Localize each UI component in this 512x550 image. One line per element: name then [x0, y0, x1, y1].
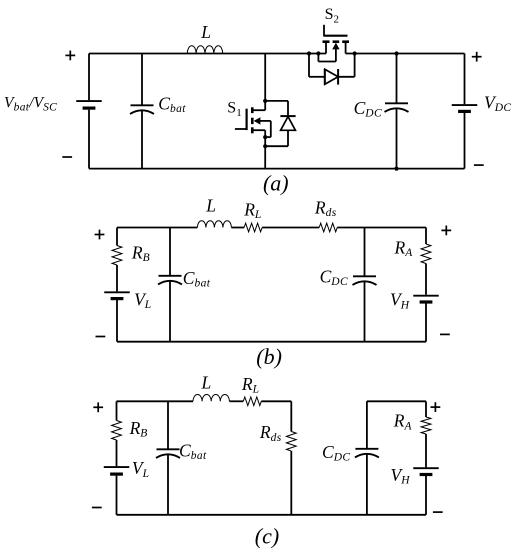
svg-text:Cbat: Cbat [179, 441, 207, 463]
svg-text:VL: VL [134, 290, 152, 312]
svg-text:(c): (c) [255, 523, 279, 548]
svg-text:Rds: Rds [259, 422, 282, 444]
svg-text:Cbat: Cbat [183, 268, 211, 290]
svg-text:RL: RL [243, 200, 262, 222]
svg-text:L: L [205, 196, 216, 216]
svg-text:RA: RA [393, 411, 413, 433]
svg-text:L: L [201, 373, 212, 393]
svg-text:S1: S1 [227, 99, 242, 119]
svg-text:RA: RA [394, 238, 414, 260]
svg-text:VH: VH [391, 465, 411, 487]
svg-text:RB: RB [131, 242, 150, 264]
svg-text:Vbat/VSC: Vbat/VSC [4, 94, 57, 113]
svg-text:CDC: CDC [320, 267, 348, 289]
svg-text:VDC: VDC [484, 92, 511, 114]
svg-text:L: L [200, 22, 211, 42]
svg-text:Rds: Rds [314, 198, 337, 220]
svg-text:Cbat: Cbat [158, 93, 186, 115]
svg-text:VL: VL [132, 458, 150, 480]
svg-text:RB: RB [129, 418, 148, 440]
svg-text:CDC: CDC [322, 442, 350, 464]
svg-text:CDC: CDC [354, 98, 382, 120]
svg-text:VH: VH [390, 290, 410, 312]
svg-text:RL: RL [241, 374, 260, 396]
svg-text:(a): (a) [263, 170, 289, 195]
svg-text:(b): (b) [256, 344, 282, 369]
svg-text:S2: S2 [325, 6, 340, 26]
